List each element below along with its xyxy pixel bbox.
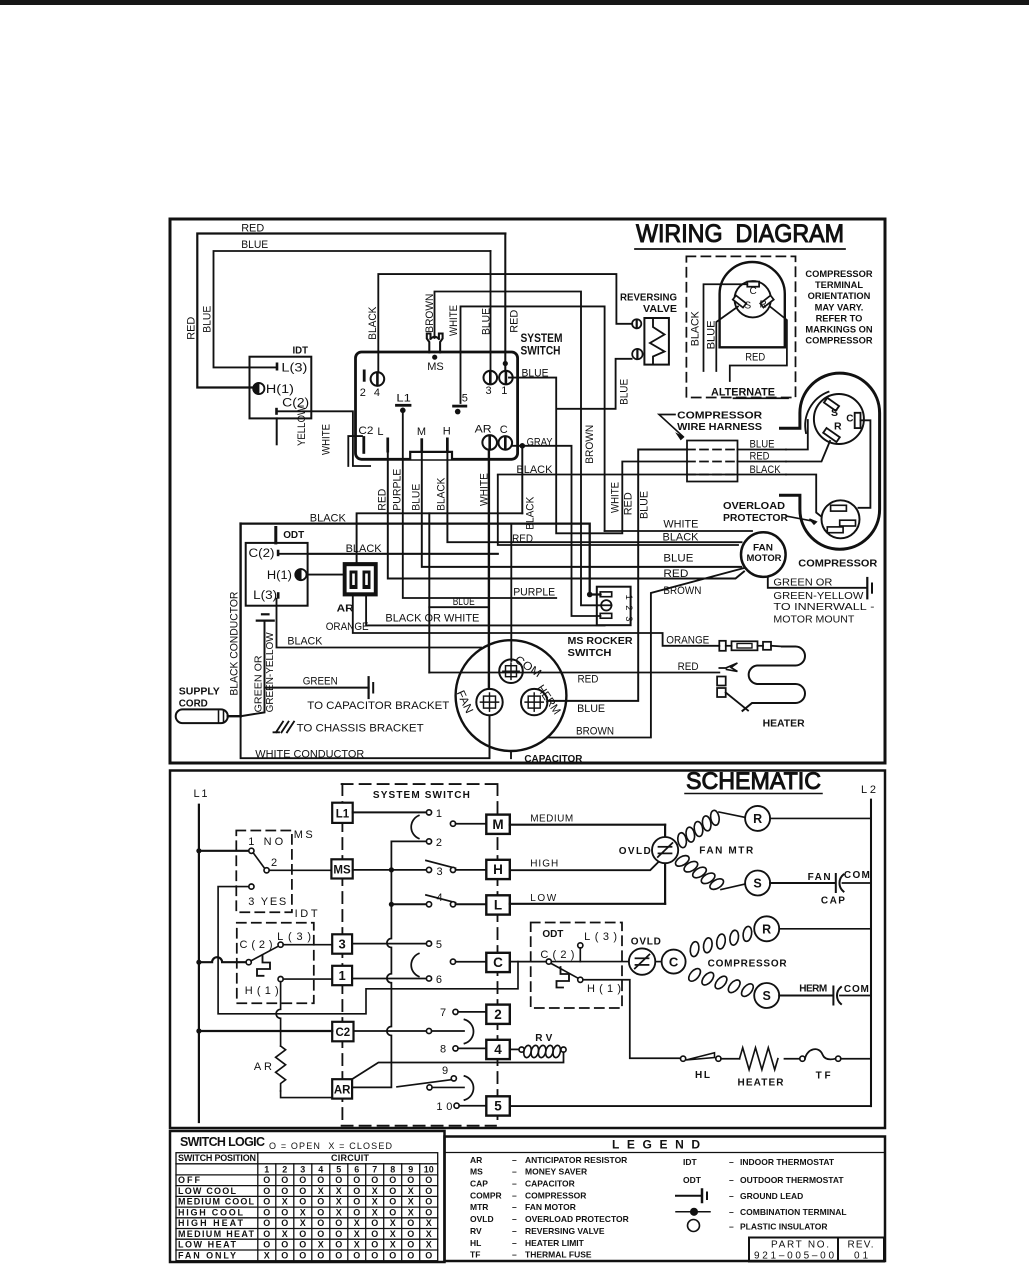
wire fan cap to L2 [843, 882, 872, 884]
wire BLUE to white riser [429, 606, 489, 608]
svg-text:4: 4 [494, 1042, 502, 1057]
RV coil [523, 1045, 533, 1059]
svg-text:BROWN: BROWN [663, 585, 701, 597]
svg-text:BROWN: BROWN [424, 294, 436, 333]
svg-text:O: O [371, 1229, 378, 1239]
ODT terminal H(1) [295, 569, 306, 580]
svg-text:O: O [371, 1218, 378, 1228]
terminal 4 [371, 372, 385, 386]
wire L1 to IDT C2 with hop [199, 957, 246, 962]
svg-text:O: O [335, 1240, 342, 1250]
odt anticipator step [557, 967, 570, 988]
idt contact L(3) [278, 942, 283, 947]
wire WHITE AR to capacitor fan [488, 450, 490, 689]
svg-text:O: O [299, 1175, 306, 1185]
svg-text:CAPACITOR: CAPACITOR [524, 753, 582, 765]
svg-text:LOW HEAT: LOW HEAT [178, 1240, 237, 1250]
svg-text:1: 1 [264, 1164, 269, 1174]
junction dot L1 row1 [196, 848, 201, 853]
contact 1 arc [411, 816, 419, 839]
svg-text:3: 3 [623, 616, 634, 621]
svg-text:2: 2 [271, 857, 277, 869]
wire S fan to cap [770, 882, 834, 884]
wire H(1) to box 1 [283, 978, 332, 980]
svg-text:PURPLE: PURPLE [392, 469, 404, 511]
svg-text:SWITCH: SWITCH [568, 647, 612, 659]
svg-text:L1: L1 [194, 788, 208, 800]
svg-text:BLUE: BLUE [750, 438, 775, 450]
svg-text:O: O [425, 1197, 432, 1207]
svg-text:–: – [512, 1202, 517, 1212]
wire contact7 to 2 box [458, 1011, 486, 1013]
wire ODT C2 black [279, 553, 497, 555]
harness dashed wires [687, 450, 738, 475]
alternate dome [720, 262, 785, 347]
wire ODT L3 black [277, 599, 482, 648]
capacitor HERM curved plate [837, 987, 841, 1004]
thermostat IDT box [250, 357, 312, 419]
MS crown dot [432, 355, 437, 360]
svg-text:2: 2 [282, 1164, 287, 1174]
wire odt C2 black run [309, 553, 498, 555]
svg-text:BLUE: BLUE [522, 368, 549, 380]
svg-text:BLUE: BLUE [453, 596, 475, 608]
svg-text:S: S [763, 989, 771, 1003]
svg-text:5: 5 [336, 1164, 341, 1174]
odt switch arm [551, 963, 578, 978]
terminal M bar [420, 438, 423, 452]
contact AR [427, 1085, 432, 1090]
ground innerwall [866, 578, 868, 598]
contact 4b [450, 902, 455, 907]
contact 1 mover [450, 821, 455, 826]
terminal box 3 [332, 934, 352, 953]
svg-text:COMBINATION TERMINAL: COMBINATION TERMINAL [740, 1207, 847, 1217]
capacitor FAN curved plate [839, 875, 843, 892]
svg-text:–: – [729, 1175, 734, 1185]
wire TF to L2 [841, 1058, 871, 1060]
wire RED capacitor to heater [429, 672, 719, 674]
svg-text:H(1): H(1) [267, 570, 292, 582]
svg-text:O: O [371, 1175, 378, 1185]
wire odt common [551, 961, 629, 963]
wire odt H1 to heater drop [583, 980, 681, 1058]
part no box [749, 1238, 884, 1262]
svg-text:O: O [335, 1218, 342, 1228]
wire C box to ODT [510, 961, 546, 963]
junction dot red t1 [503, 361, 508, 366]
svg-text:BLACK: BLACK [690, 311, 702, 347]
IDT dashed box [237, 923, 314, 1004]
svg-text:REVERSING: REVERSING [620, 292, 677, 304]
svg-text:IDT: IDT [683, 1157, 698, 1167]
junction dot trunk row4 [389, 902, 394, 907]
svg-text:BLUE: BLUE [411, 484, 423, 511]
odt contact L(3) [578, 943, 583, 948]
alternate wire RED [730, 307, 787, 382]
system switch bottom step [410, 452, 452, 459]
svg-text:ORIENTATION: ORIENTATION [808, 291, 871, 301]
svg-text:HL: HL [470, 1238, 481, 1248]
arc contacts 7-8 [465, 1020, 474, 1044]
svg-text:TO CHASSIS BRACKET: TO CHASSIS BRACKET [297, 723, 424, 735]
heater red crimp [719, 663, 737, 672]
svg-text:O: O [407, 1250, 414, 1260]
wire L(3) to box 3 [283, 944, 332, 946]
alternate terminal circle [735, 281, 771, 317]
svg-text:SYSTEM: SYSTEM [521, 333, 563, 345]
svg-text:C: C [493, 955, 503, 970]
circle S compr [754, 983, 779, 1008]
svg-text:1: 1 [501, 385, 507, 397]
svg-text:BLACK: BLACK [436, 477, 448, 511]
wire MEDIUM [510, 824, 665, 826]
svg-text:X: X [408, 1207, 414, 1217]
svg-text:X: X [426, 1229, 432, 1239]
svg-text:O: O [263, 1197, 270, 1207]
wire H(1) down with hop [276, 982, 281, 1046]
ODT dashed box [531, 923, 622, 1009]
schematic section border [170, 771, 885, 1129]
fan motor winding top [677, 832, 688, 848]
svg-text:REVERSING VALVE: REVERSING VALVE [525, 1226, 605, 1236]
wire BROWN ms to rocker [435, 292, 601, 606]
svg-text:X: X [282, 1197, 288, 1207]
valve terminal top [632, 319, 641, 328]
svg-text:O: O [281, 1240, 288, 1250]
terminal box MS [331, 859, 352, 878]
svg-text:O: O [407, 1240, 414, 1250]
svg-text:X: X [336, 1186, 342, 1196]
system switch dashed left edge [341, 784, 343, 1126]
odt contact C(2) [546, 959, 551, 964]
wire R compr to L2 [779, 928, 871, 930]
wire BLUE t1 to valve [509, 359, 687, 534]
svg-text:X: X [336, 1197, 342, 1207]
wire red vertical to capacitor [428, 513, 430, 672]
svg-text:O: O [407, 1218, 414, 1228]
svg-text:GROUND LEAD: GROUND LEAD [740, 1191, 803, 1201]
wire IDT C2 yellow [278, 411, 370, 466]
svg-text:TF: TF [470, 1250, 480, 1260]
svg-text:BLACK: BLACK [525, 496, 537, 530]
wire BLACK row to compressor [498, 474, 786, 476]
svg-text:10: 10 [424, 1164, 434, 1174]
wire L1 to C2 box [199, 1030, 332, 1032]
svg-text:OFF: OFF [178, 1175, 201, 1185]
idt contact C(2) [246, 960, 251, 965]
svg-text:X: X [408, 1186, 414, 1196]
svg-text:O: O [353, 1175, 360, 1185]
svg-text:O: O [299, 1250, 306, 1260]
svg-text:R: R [834, 421, 842, 433]
wire contactC2 stub [432, 1030, 464, 1032]
svg-text:PART NO.: PART NO. [771, 1240, 829, 1251]
wire mover1 to M box [456, 823, 487, 825]
svg-text:CORD: CORD [179, 698, 208, 710]
svg-text:X: X [372, 1197, 378, 1207]
wiring diagram section border [170, 219, 885, 763]
capacitor terminal COM [499, 659, 523, 683]
svg-text:RED: RED [678, 661, 699, 673]
wire RED drop to terminal 1 [504, 234, 506, 372]
svg-text:OUTDOOR THERMOSTAT: OUTDOOR THERMOSTAT [740, 1175, 844, 1185]
compressor winding bottom [687, 966, 703, 983]
svg-text:OVLD: OVLD [631, 937, 661, 948]
wire BLACK to valve top [378, 274, 632, 372]
svg-text:SCHEMATIC: SCHEMATIC [686, 768, 821, 795]
wire BLUE drop to terminal 3 [490, 251, 492, 371]
svg-text:R: R [760, 300, 767, 311]
svg-text:TO CAPACITOR BRACKET: TO CAPACITOR BRACKET [307, 700, 449, 712]
svg-text:BLACK: BLACK [367, 306, 379, 340]
svg-text:2: 2 [494, 1007, 502, 1022]
compressor C terminal [855, 413, 861, 428]
thermostat ODT box [246, 543, 308, 606]
ms switch arm [253, 853, 264, 869]
svg-text:MTR: MTR [470, 1202, 488, 1212]
svg-text:ORANGE: ORANGE [666, 634, 709, 646]
svg-text:H: H [443, 426, 451, 438]
wire ovld to C [655, 961, 661, 963]
svg-text:PLASTIC INSULATOR: PLASTIC INSULATOR [740, 1222, 828, 1232]
valve terminal bottom [632, 349, 642, 359]
svg-text:–: – [512, 1155, 517, 1165]
svg-text:C2: C2 [358, 425, 373, 437]
svg-text:WHITE: WHITE [321, 424, 333, 455]
svg-text:BROWN: BROWN [584, 425, 596, 464]
svg-text:–: – [729, 1222, 734, 1232]
svg-text:MARKINGS ON: MARKINGS ON [805, 325, 872, 335]
alternate wire BLACK [704, 284, 748, 371]
svg-text:X: X [372, 1186, 378, 1196]
svg-text:BLACK: BLACK [287, 636, 323, 648]
svg-text:HEATER: HEATER [763, 718, 805, 730]
svg-text:WHITE: WHITE [479, 473, 491, 506]
svg-text:FAN: FAN [808, 872, 831, 883]
contact C2 [426, 1028, 431, 1033]
compressor S terminal [824, 398, 839, 411]
svg-text:S: S [753, 877, 761, 891]
svg-text:3: 3 [437, 866, 443, 878]
wire ms2 to MS box [269, 869, 331, 871]
terminal box 4 [486, 1040, 510, 1059]
svg-text:L: L [377, 426, 383, 438]
svg-text:AR: AR [334, 1085, 351, 1097]
svg-text:WHITE: WHITE [663, 519, 698, 531]
svg-text:O: O [407, 1229, 414, 1239]
svg-text:C2: C2 [335, 1027, 350, 1039]
svg-text:O: O [299, 1240, 306, 1250]
svg-text:BLUE: BLUE [577, 703, 605, 715]
wire black conductor vertical [239, 524, 241, 717]
terminal box AR [332, 1079, 352, 1098]
wire ODT H1 to AR [307, 574, 343, 576]
svg-text:RED: RED [186, 317, 198, 340]
svg-text:O: O [353, 1197, 360, 1207]
svg-text:O: O [281, 1218, 288, 1228]
svg-text:C: C [500, 424, 508, 436]
reversing valve zigzag [650, 319, 665, 365]
overload rect 1 [831, 505, 847, 511]
terminal box 2 [486, 1005, 510, 1024]
terminal L1 dot [400, 408, 406, 414]
terminal box C2 [332, 1022, 353, 1042]
title underline [635, 248, 845, 250]
svg-text:O: O [425, 1207, 432, 1217]
svg-text:–: – [512, 1179, 517, 1189]
OVLD fan circle [652, 837, 678, 863]
svg-text:MOTOR: MOTOR [747, 553, 782, 564]
svg-text:MEDIUM COOL: MEDIUM COOL [178, 1197, 255, 1207]
svg-text:O: O [299, 1186, 306, 1196]
contact 8 [453, 1046, 458, 1051]
svg-text:COMPRESSOR: COMPRESSOR [798, 558, 877, 570]
svg-text:3: 3 [486, 385, 492, 397]
anticipator resistor AR block [343, 562, 378, 596]
ground green-yellow [257, 619, 274, 621]
svg-text:ORANGE: ORANGE [326, 621, 369, 633]
svg-text:COMPRESSOR: COMPRESSOR [805, 269, 872, 279]
svg-text:R: R [762, 922, 771, 936]
svg-text:–: – [512, 1250, 517, 1260]
svg-text:X: X [372, 1207, 378, 1217]
svg-text:C: C [846, 414, 853, 425]
heater fuse terminal left [719, 641, 726, 651]
wire BLUE capacitor [548, 450, 688, 701]
terminal AR [482, 435, 497, 450]
svg-text:O: O [353, 1186, 360, 1196]
svg-text:COMPRESSOR: COMPRESSOR [677, 411, 763, 422]
wire L1 rail [198, 805, 200, 1122]
svg-text:PURPLE: PURPLE [513, 587, 555, 599]
svg-text:M: M [417, 426, 426, 438]
svg-text:REFER TO: REFER TO [816, 313, 863, 323]
wire BLACK H to fan motor [447, 452, 741, 542]
wire contact10 to 5 box [459, 1105, 486, 1107]
svg-text:HERM: HERM [799, 984, 827, 995]
fan motor circle [741, 532, 786, 577]
svg-text:S: S [745, 301, 752, 312]
svg-text:FAN ONLY: FAN ONLY [178, 1250, 236, 1260]
svg-text:7: 7 [440, 1007, 446, 1019]
svg-text:BLUE: BLUE [241, 239, 268, 251]
alternate C terminal [747, 282, 759, 287]
svg-text:8: 8 [390, 1164, 395, 1174]
wire contact8 to 4 box [458, 1047, 486, 1049]
svg-text:TERMINAL: TERMINAL [815, 280, 863, 290]
wire AR resistor to AR box [281, 1091, 333, 1098]
svg-text:3 YES: 3 YES [248, 896, 286, 908]
wire trunk jog up [357, 513, 523, 523]
svg-text:R: R [753, 812, 762, 826]
resistor HEATER [740, 1048, 778, 1070]
svg-text:O: O [389, 1197, 396, 1207]
svg-text:MS: MS [333, 865, 351, 877]
terminal box L [486, 895, 510, 914]
svg-text:WHITE CONDUCTOR: WHITE CONDUCTOR [255, 748, 364, 760]
svg-text:MEDIUM: MEDIUM [530, 814, 573, 825]
contact 4 blade [426, 895, 456, 903]
TF fuse arc [805, 1049, 836, 1059]
compressor R terminal [823, 428, 840, 442]
svg-text:FAN MTR: FAN MTR [699, 846, 754, 857]
svg-text:–: – [512, 1167, 517, 1177]
svg-text:CAP: CAP [470, 1179, 488, 1189]
svg-text:5: 5 [462, 392, 468, 404]
wire C2box to contact [354, 1030, 427, 1032]
svg-text:O: O [335, 1229, 342, 1239]
svg-text:MS: MS [427, 361, 444, 373]
svg-text:BLUE: BLUE [663, 553, 693, 565]
RV contact left [519, 1047, 524, 1052]
idt contact H(1) [278, 977, 283, 982]
svg-text:4: 4 [374, 387, 380, 399]
svg-text:O: O [425, 1250, 432, 1260]
harness leader arrow [659, 415, 683, 437]
svg-text:BLACK OR WHITE: BLACK OR WHITE [385, 613, 479, 625]
wire fan branch vertical [664, 825, 666, 904]
svg-text:O: O [299, 1229, 306, 1239]
IDT terminal L(3) [276, 363, 279, 371]
svg-text:MONEY SAVER: MONEY SAVER [525, 1167, 587, 1177]
capacitor terminal HERM [521, 689, 547, 715]
svg-text:1: 1 [339, 968, 346, 983]
svg-text:FAN MOTOR: FAN MOTOR [525, 1202, 576, 1212]
terminal box H [486, 860, 510, 879]
resistor AR [276, 1046, 286, 1091]
contact 5 mover [450, 959, 455, 964]
switch logic table grid [176, 1153, 438, 1261]
svg-text:L1: L1 [336, 808, 350, 820]
svg-text:RED: RED [745, 352, 765, 364]
ODT terminal C(2) [277, 550, 280, 557]
wire L2 rail [870, 800, 872, 1107]
wire mover5 to C box [456, 961, 487, 963]
svg-text:COMPRESSOR: COMPRESSOR [708, 959, 788, 970]
wire 1box to contact 6 [352, 978, 426, 980]
wire GREEN fan ground [768, 577, 867, 588]
svg-text:AR: AR [337, 603, 354, 615]
svg-text:ODT: ODT [683, 1175, 702, 1185]
svg-text:INDOOR THERMOSTAT: INDOOR THERMOSTAT [740, 1157, 835, 1167]
compressor winding top [689, 941, 700, 957]
svg-text:C(2): C(2) [249, 548, 275, 560]
OVLD compr circle [629, 948, 655, 974]
terminal L bar [386, 438, 389, 453]
money saver dashed box [236, 831, 292, 913]
money saver rocker box [597, 587, 631, 626]
svg-text:GREEN: GREEN [303, 675, 338, 687]
svg-text:6: 6 [354, 1164, 359, 1174]
svg-text:OVERLOAD: OVERLOAD [723, 501, 785, 512]
svg-text:BLUE: BLUE [706, 320, 718, 349]
svg-text:OVERLOAD PROTECTOR: OVERLOAD PROTECTOR [525, 1214, 629, 1224]
wire RV to AR box diagonal [352, 1052, 563, 1079]
alternate underline [734, 397, 789, 399]
svg-text:PROTECTOR: PROTECTOR [723, 513, 789, 524]
contact 10 [454, 1103, 459, 1108]
svg-text:X: X [354, 1229, 360, 1239]
alternate wire BLUE [716, 307, 738, 372]
svg-text:2: 2 [360, 387, 366, 399]
svg-text:2: 2 [436, 837, 442, 849]
HL contact left [681, 1056, 686, 1061]
wire BLACK OR WHITE ar leg [366, 596, 604, 625]
capacitor HERM plate [832, 987, 834, 1005]
contact 4a [426, 902, 431, 907]
wire ms3 left-down-right [218, 887, 518, 1014]
